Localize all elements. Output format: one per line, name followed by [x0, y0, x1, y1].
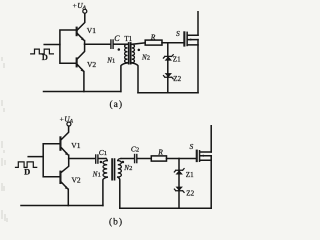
- svg-text:1: 1: [98, 172, 101, 179]
- svg-text:Z2: Z2: [173, 75, 181, 83]
- svg-text:V1: V1: [71, 141, 80, 150]
- svg-text:D: D: [24, 166, 30, 176]
- svg-text:S: S: [190, 142, 194, 151]
- svg-text:1: 1: [112, 58, 115, 65]
- svg-text:T1: T1: [124, 35, 132, 43]
- svg-text:R: R: [157, 148, 163, 157]
- svg-text:Z1: Z1: [173, 55, 181, 63]
- svg-text:V2: V2: [87, 60, 96, 69]
- svg-text:2: 2: [129, 165, 132, 172]
- svg-text:(a): (a): [110, 99, 124, 110]
- svg-text:C: C: [114, 34, 120, 43]
- svg-text:R: R: [150, 32, 156, 41]
- svg-text:V2: V2: [72, 176, 81, 185]
- svg-text:1: 1: [104, 150, 107, 157]
- svg-text:V1: V1: [87, 26, 96, 35]
- svg-text:(b): (b): [109, 217, 123, 228]
- svg-text:S: S: [176, 29, 180, 38]
- svg-text:2: 2: [136, 147, 139, 154]
- svg-text:Z2: Z2: [186, 190, 194, 198]
- svg-text:D: D: [42, 52, 48, 62]
- svg-text:2: 2: [147, 55, 150, 62]
- svg-text:Z1: Z1: [186, 171, 194, 179]
